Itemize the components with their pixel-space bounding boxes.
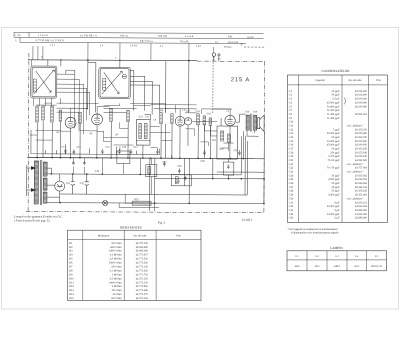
svg-text:voir „Bobines”: voir „Bobines” bbox=[347, 125, 364, 128]
capacitor C22 bbox=[163, 161, 166, 167]
pentode L1 AK2 bbox=[65, 117, 76, 128]
svg-text:Prix: Prix bbox=[376, 79, 381, 82]
svg-text:A 777 M. KM. A A 17 KA: A 777 M. KM. A A 17 KA N bbox=[35, 39, 64, 42]
svg-text:24.071.632: 24.071.632 bbox=[136, 297, 149, 300]
wire AVC bus bbox=[31, 130, 160, 154]
svg-text:R13: R13 bbox=[69, 289, 74, 292]
antenna terminal A bbox=[212, 53, 215, 61]
svg-text:1 MOhm: 1 MOhm bbox=[112, 273, 123, 276]
wire mid verticals bbox=[37, 117, 221, 158]
svg-text:No. de code: No. de code bbox=[349, 79, 363, 82]
svg-text:C29: C29 bbox=[233, 149, 238, 152]
svg-text:R13: R13 bbox=[134, 198, 139, 201]
svg-text:14000 Ohm: 14000 Ohm bbox=[109, 250, 123, 253]
svg-text:28.192.400: 28.192.400 bbox=[355, 90, 368, 93]
svg-text:24.771.575: 24.771.575 bbox=[136, 293, 149, 296]
svg-text:26.194.933: 26.194.933 bbox=[355, 178, 368, 181]
pentode L2 AF3 bbox=[92, 114, 103, 125]
svg-text:24.771.607: 24.771.607 bbox=[136, 254, 149, 257]
svg-text:28.052.680: 28.052.680 bbox=[136, 246, 149, 249]
svg-text:C16: C16 bbox=[289, 144, 294, 147]
wire tube leads bbox=[70, 114, 230, 158]
svg-text:45.000 µµF: 45.000 µµF bbox=[327, 144, 340, 147]
coil L5 bbox=[36, 106, 39, 122]
output transformer secondary S2 bbox=[254, 115, 257, 130]
svg-text:24.771.440: 24.771.440 bbox=[136, 289, 149, 292]
svg-text:8 µF: 8 µF bbox=[334, 201, 340, 204]
svg-text:11.490 µµF: 11.490 µµF bbox=[327, 117, 340, 120]
tuning shaft link bbox=[212, 56, 214, 114]
svg-text:24.771.350: 24.771.350 bbox=[136, 281, 149, 284]
svg-text:C29: C29 bbox=[289, 194, 294, 197]
svg-text:250 Ohm: 250 Ohm bbox=[111, 266, 122, 269]
tuning gang section 2 (C2) shield box bbox=[99, 67, 131, 98]
capacitor C15 bbox=[156, 149, 159, 155]
lampes header bbox=[296, 255, 379, 258]
capacitor C13 bbox=[73, 149, 76, 155]
svg-text:C10: C10 bbox=[289, 121, 294, 124]
rectifier tube L5 AZ1 bbox=[55, 181, 65, 191]
lampes values bbox=[294, 265, 382, 268]
svg-text:24.771.750: 24.771.750 bbox=[136, 273, 149, 276]
svg-text:28.288.000: 28.288.000 bbox=[355, 217, 368, 220]
svg-text:} Pour le point B voir pag. 52: } Pour le point B voir pag. 52. bbox=[14, 219, 51, 223]
capacitor C19 bbox=[203, 150, 206, 156]
svg-text:28.351.481: 28.351.481 bbox=[355, 194, 368, 197]
svg-text:2,5 MOhm: 2,5 MOhm bbox=[110, 258, 123, 261]
chassis boundary (dash-dot frame) bbox=[26, 53, 265, 213]
svg-text:R10: R10 bbox=[69, 277, 74, 280]
resistor R12 bbox=[209, 118, 212, 126]
transformer core bbox=[251, 114, 252, 132]
wire detector internals bbox=[220, 143, 233, 151]
svg-text:C13: C13 bbox=[289, 132, 294, 135]
svg-text:50 Ohm: 50 Ohm bbox=[113, 293, 123, 296]
coil L7 bbox=[110, 108, 113, 121]
svg-text:10000 Ohm: 10000 Ohm bbox=[109, 281, 123, 284]
wire switch drops bbox=[33, 43, 214, 61]
resistor R10 in detector box bbox=[220, 131, 223, 141]
svg-text:70 / 50 µµF: 70 / 50 µµF bbox=[327, 167, 340, 170]
T1 secondary heaters bbox=[43, 192, 47, 203]
svg-text:24.471.150: 24.471.150 bbox=[136, 277, 149, 280]
IF transformer box L10 bbox=[136, 120, 150, 146]
coil L3 inside box2 bbox=[103, 78, 106, 90]
svg-text:C17: C17 bbox=[133, 146, 138, 149]
wire bottom rail bbox=[47, 203, 264, 204]
capacitor C27 bbox=[238, 150, 241, 156]
component labels bbox=[56, 108, 258, 202]
svg-text:1 4 1: 1 4 1 bbox=[50, 44, 56, 47]
svg-text:28.192.400: 28.192.400 bbox=[355, 94, 368, 97]
loudspeaker bbox=[258, 115, 265, 131]
svg-text:50 µµF: 50 µµF bbox=[332, 174, 340, 177]
wire IF feed bbox=[166, 61, 189, 113]
capacitor C14 bbox=[101, 149, 104, 155]
transformer T1 core bbox=[40, 160, 41, 205]
svg-text:24.552.650: 24.552.650 bbox=[355, 213, 368, 216]
svg-text:C18: C18 bbox=[289, 151, 294, 154]
svg-text:C 87: C 87 bbox=[16, 34, 22, 37]
mains input plug bbox=[27, 165, 36, 196]
svg-text:200 Ohm: 200 Ohm bbox=[111, 242, 122, 245]
wire bus-to-rail drops bbox=[73, 158, 140, 175]
svg-text:2.000 µµF: 2.000 µµF bbox=[328, 194, 340, 197]
wire coupling 2 bbox=[48, 60, 96, 112]
svg-text:0,1 MOhm: 0,1 MOhm bbox=[110, 269, 123, 272]
svg-text:28.326.562: 28.326.562 bbox=[355, 182, 368, 185]
dial lamp bbox=[103, 200, 108, 205]
svg-text:C30: C30 bbox=[289, 197, 294, 200]
wire extra links bbox=[29, 122, 208, 151]
svg-text:LAMPES: LAMPES bbox=[330, 246, 343, 250]
resistor R8 bbox=[160, 113, 163, 124]
wire AVC links bbox=[35, 104, 196, 145]
svg-text:50.000 µµF: 50.000 µµF bbox=[327, 132, 340, 135]
svg-text:voir „Bobines”: voir „Bobines” bbox=[347, 197, 364, 200]
svg-text:45.000 µµF: 45.000 µµF bbox=[327, 101, 340, 104]
capacitor C4 bbox=[64, 149, 67, 155]
svg-text:29.356.245: 29.356.245 bbox=[355, 190, 368, 193]
duodiode L3 ABL1 triode bbox=[175, 116, 185, 126]
resistor R12b in detector box bbox=[227, 134, 230, 143]
wire grid bus upper bbox=[37, 103, 166, 113]
svg-text:ABL1: ABL1 bbox=[334, 265, 341, 268]
resistances rows bbox=[69, 242, 148, 300]
AF coupling box bbox=[171, 175, 191, 186]
svg-text:28.190.200: 28.190.200 bbox=[355, 140, 368, 143]
svg-text:28.195.610: 28.195.610 bbox=[355, 155, 368, 158]
svg-text:29.356.362: 29.356.362 bbox=[355, 174, 368, 177]
block capacitor unit C28/C29 bbox=[117, 151, 130, 164]
resistor R9 bbox=[171, 114, 174, 124]
svg-text:C18: C18 bbox=[196, 110, 201, 113]
resistor R4 bbox=[79, 112, 82, 123]
IF coil winding b bbox=[144, 124, 147, 139]
condensateurs table frame bbox=[288, 75, 388, 222]
svg-text:C16: C16 bbox=[122, 146, 127, 149]
svg-text:C31: C31 bbox=[66, 182, 71, 185]
wire R13 leads bbox=[119, 194, 159, 207]
svg-text:23.000 µµF: 23.000 µµF bbox=[327, 205, 340, 208]
diode section L3 bbox=[184, 118, 191, 125]
svg-text:C33: C33 bbox=[289, 209, 294, 212]
svg-text:C22: C22 bbox=[162, 161, 167, 164]
wire coupling 1 bbox=[57, 70, 90, 134]
filter choke box bbox=[146, 165, 157, 177]
svg-text:R11: R11 bbox=[69, 281, 74, 284]
svg-text:50 µµF: 50 µµF bbox=[332, 148, 340, 151]
wire rectifier output rail bbox=[47, 174, 241, 175]
svg-text:N.B. P.B.: N.B. P.B. bbox=[158, 35, 168, 38]
svg-text:28.199.050: 28.199.050 bbox=[355, 144, 368, 147]
capacitor C17 bbox=[130, 149, 133, 155]
wire speaker leads bbox=[236, 114, 259, 159]
svg-text:LNA H W: LNA H W bbox=[228, 41, 239, 44]
capacitor C26 bbox=[178, 168, 181, 174]
capacitor C23 bbox=[184, 176, 186, 180]
wire left rail bbox=[31, 60, 52, 106]
svg-text:C21: C21 bbox=[289, 163, 294, 166]
svg-text:C33: C33 bbox=[95, 170, 100, 173]
svg-text:28.199.060: 28.199.060 bbox=[355, 105, 368, 108]
capacitor C33b bbox=[83, 161, 86, 165]
svg-text:N b n.PL: N b n.PL bbox=[180, 40, 190, 43]
svg-text:C28: C28 bbox=[289, 190, 294, 193]
svg-text:C20: C20 bbox=[289, 159, 294, 162]
wire heater rail bbox=[60, 193, 247, 196]
T1 secondary HT bbox=[43, 162, 47, 176]
svg-text:d’alimentation avec transforma: d’alimentation avec transformateurs sépa… bbox=[291, 231, 339, 234]
svg-text:0,1 MOhm: 0,1 MOhm bbox=[110, 254, 123, 257]
svg-text:A b W: A b W bbox=[247, 36, 254, 39]
svg-text:voir „Bobines”: voir „Bobines” bbox=[347, 163, 364, 166]
svg-text:28.199.060: 28.199.060 bbox=[355, 101, 368, 104]
coil L11 bbox=[197, 114, 200, 125]
svg-text:125 Ohm: 125 Ohm bbox=[111, 289, 122, 292]
wire coupling 3 bbox=[120, 60, 160, 114]
svg-text:11.490 µµF: 11.490 µµF bbox=[327, 113, 340, 116]
capacitor C24 in box bbox=[227, 165, 229, 169]
output pentode L4 ABL1 bbox=[225, 115, 235, 125]
svg-text:R14: R14 bbox=[69, 293, 74, 296]
svg-text:C32: C32 bbox=[289, 205, 294, 208]
coil L6 bbox=[51, 106, 54, 122]
svg-text:* Est rapporté en employant un: * Est rapporté en employant un transform… bbox=[288, 228, 338, 231]
choke winding bbox=[148, 167, 151, 175]
svg-text:10.000 µµF: 10.000 µµF bbox=[327, 140, 340, 143]
svg-text:29.757.604: 29.757.604 bbox=[355, 167, 368, 170]
junction dots top bus bbox=[60, 59, 190, 61]
svg-text:28.199.060: 28.199.060 bbox=[355, 132, 368, 135]
svg-text:AF3: AF3 bbox=[315, 265, 320, 268]
svg-text:P.PL: P.PL bbox=[228, 35, 233, 38]
resistor R9b in AF box bbox=[175, 177, 178, 184]
resistor R6 bbox=[127, 111, 130, 122]
svg-text:n.a. m.b.: n.a. m.b. bbox=[185, 35, 194, 38]
svg-text:50 µµF: 50 µµF bbox=[332, 136, 340, 139]
condensateurs rows bbox=[289, 90, 368, 220]
wire right risers bbox=[150, 131, 265, 212]
svg-text:50.000 µµF: 50.000 µµF bbox=[327, 105, 340, 108]
svg-text:50 µµF: 50 µµF bbox=[332, 94, 340, 97]
coil L2 inside box1 bbox=[33, 79, 36, 93]
svg-text:24.771.850: 24.771.850 bbox=[136, 285, 149, 288]
electrolytic capacitor C31 bbox=[71, 174, 75, 194]
lampes table frame bbox=[287, 251, 387, 271]
svg-text:C13: C13 bbox=[76, 146, 81, 149]
electrolytic capacitor C32 bbox=[85, 174, 89, 194]
svg-text:28.356.131: 28.356.131 bbox=[355, 201, 368, 204]
svg-text:2.950 µµF: 2.950 µµF bbox=[328, 178, 340, 181]
svg-text:29.356.150: 29.356.150 bbox=[355, 128, 368, 131]
svg-text:50 µµF: 50 µµF bbox=[332, 90, 340, 93]
svg-text:50 µµF: 50 µµF bbox=[332, 182, 340, 185]
svg-text:1 1 3 4 4 1: 1 1 3 4 4 1 bbox=[38, 34, 49, 37]
svg-text:Résistance: Résistance bbox=[98, 235, 110, 238]
svg-text:0,5 µF: 0,5 µF bbox=[332, 98, 340, 101]
svg-text:D 2051: D 2051 bbox=[241, 218, 252, 222]
svg-text:24.771.520: 24.771.520 bbox=[136, 258, 149, 261]
svg-text:Prix: Prix bbox=[176, 235, 181, 238]
svg-text:R12: R12 bbox=[69, 285, 74, 288]
tuning gang section 1 (C1) shield box bbox=[31, 66, 57, 98]
svg-text:C23: C23 bbox=[176, 180, 181, 183]
svg-text:C23: C23 bbox=[289, 171, 294, 174]
svg-text:C42: C42 bbox=[289, 213, 294, 216]
output transformer primary S1 bbox=[246, 115, 249, 130]
svg-text:24.771.650: 24.771.650 bbox=[136, 269, 149, 272]
svg-text:C26: C26 bbox=[177, 165, 182, 168]
resistor R13 mains dropper bbox=[132, 201, 151, 205]
svg-text:250 µµF: 250 µµF bbox=[330, 151, 340, 154]
earth terminal bbox=[218, 54, 220, 61]
svg-text:C22: C22 bbox=[289, 167, 294, 170]
wire HT rail bbox=[154, 177, 264, 180]
wire antenna bus bbox=[28, 59, 197, 62]
svg-text:C27: C27 bbox=[289, 186, 294, 189]
header strip text bbox=[15, 34, 254, 49]
svg-text:C14: C14 bbox=[289, 136, 294, 139]
wire grid links bbox=[57, 108, 233, 133]
svg-text:CONDENSATEURS: CONDENSATEURS bbox=[321, 69, 349, 73]
svg-text:C17: C17 bbox=[289, 148, 294, 151]
trimmer C5 in box2 bbox=[122, 74, 126, 78]
svg-text:24.770.190: 24.770.190 bbox=[136, 242, 149, 245]
svg-text:50000 Ohm: 50000 Ohm bbox=[109, 262, 123, 265]
svg-text:28.199.290: 28.199.290 bbox=[355, 98, 368, 101]
svg-text:24.771.130: 24.771.130 bbox=[136, 266, 149, 269]
dial/switch header table bbox=[14, 32, 266, 47]
svg-text:C14: C14 bbox=[105, 146, 110, 149]
svg-text:29.155.630: 29.155.630 bbox=[355, 151, 368, 154]
svg-text:1.070 µµF: 1.070 µµF bbox=[328, 155, 340, 158]
svg-text:C27: C27 bbox=[219, 148, 224, 151]
svg-text:28.342.335: 28.342.335 bbox=[355, 186, 368, 189]
svg-text:24.771.620: 24.771.620 bbox=[136, 262, 149, 265]
wire choke leads bbox=[150, 158, 152, 194]
svg-text:P.B. N N n.a.: P.B. N N n.a. bbox=[140, 40, 154, 43]
variable capacitor C2 arrows bbox=[102, 71, 123, 94]
svg-text:RESISTANCES: RESISTANCES bbox=[120, 225, 142, 229]
wire chassis bus bbox=[27, 157, 264, 158]
svg-text:29.356.245: 29.356.245 bbox=[355, 148, 368, 151]
svg-text:S4 Na L: S4 Na L bbox=[224, 46, 233, 49]
brace C7-C9 bbox=[344, 98, 347, 105]
svg-text:11.000 µµF: 11.000 µµF bbox=[327, 109, 340, 112]
svg-text:Fig. 2: Fig. 2 bbox=[158, 220, 166, 224]
svg-text:C32: C32 bbox=[80, 182, 85, 185]
svg-text:C28: C28 bbox=[200, 160, 205, 163]
svg-text:24.552.652: 24.552.652 bbox=[355, 205, 368, 208]
svg-text:voir „Bobines”: voir „Bobines” bbox=[347, 171, 364, 174]
svg-text:AZ1: AZ1 bbox=[354, 265, 360, 268]
IF coil winding a bbox=[139, 124, 142, 139]
svg-text:28.292.301: 28.292.301 bbox=[355, 113, 368, 116]
svg-text:50 µµF: 50 µµF bbox=[332, 190, 340, 193]
svg-text:8063/1-05: 8063/1-05 bbox=[371, 265, 383, 268]
resistor R11 bbox=[203, 116, 206, 125]
svg-text:C43: C43 bbox=[289, 217, 294, 220]
svg-text:1 A3: 1 A3 bbox=[196, 45, 201, 48]
svg-text:C12: C12 bbox=[289, 128, 294, 131]
svg-text:70–50 µµF: 70–50 µµF bbox=[328, 159, 340, 162]
svg-text:50 µµF: 50 µµF bbox=[332, 186, 340, 189]
coupling box C23 bbox=[223, 162, 234, 175]
mains transformer T1 primary bbox=[34, 161, 38, 204]
svg-text:R15: R15 bbox=[69, 297, 74, 300]
svg-text:0,5 MOhm: 0,5 MOhm bbox=[110, 277, 123, 280]
svg-text:33.000 µµF: 33.000 µµF bbox=[327, 213, 340, 216]
junction dots rails bbox=[50, 173, 265, 204]
svg-text:L A N L: L A N L bbox=[130, 44, 138, 47]
wire anode links bbox=[71, 106, 231, 136]
svg-text:C25: C25 bbox=[289, 178, 294, 181]
svg-text:Capacité: Capacité bbox=[315, 79, 325, 82]
svg-text:5 µµF: 5 µµF bbox=[333, 128, 340, 131]
svg-text:C13: C13 bbox=[139, 115, 144, 118]
svg-text:C31: C31 bbox=[289, 201, 294, 204]
svg-text:C24: C24 bbox=[289, 174, 294, 177]
svg-text:600 Ohm: 600 Ohm bbox=[111, 297, 122, 300]
svg-text:C11: C11 bbox=[289, 125, 294, 128]
svg-text:215 A: 215 A bbox=[231, 76, 250, 83]
detector box bbox=[217, 126, 238, 159]
capacitor C16 bbox=[118, 149, 121, 155]
svg-text:29.356.370: 29.356.370 bbox=[355, 136, 368, 139]
svg-text:N.B. wa.: N.B. wa. bbox=[120, 34, 129, 37]
svg-text:C26: C26 bbox=[289, 182, 294, 185]
svg-text:C19: C19 bbox=[289, 155, 294, 158]
variable capacitor C1 arrows bbox=[34, 70, 55, 94]
resistor R1 bbox=[42, 106, 45, 120]
resistor R2 bbox=[59, 110, 62, 121]
svg-text:ws. N.B. P.B. 1 4: ws. N.B. P.B. 1 4 bbox=[80, 34, 97, 37]
wire rectifier leads bbox=[47, 168, 60, 203]
svg-text:2 µF: 2 µF bbox=[334, 217, 340, 220]
svg-text:No. de code: No. de code bbox=[134, 235, 148, 238]
svg-text:28.085.080: 28.085.080 bbox=[136, 250, 149, 253]
capacitor C29 lead bbox=[120, 146, 124, 174]
svg-text:2 µF: 2 µF bbox=[334, 209, 340, 212]
junction dots chassis bus bbox=[36, 157, 244, 160]
svg-text:C15: C15 bbox=[289, 140, 294, 143]
svg-text:C20: C20 bbox=[186, 110, 191, 113]
svg-text:24.552.500: 24.552.500 bbox=[355, 159, 368, 162]
svg-text:2 MOhm: 2 MOhm bbox=[112, 285, 123, 288]
resistances table frame bbox=[68, 230, 202, 300]
svg-text:C19: C19 bbox=[207, 112, 212, 115]
capacitor C30 bbox=[72, 161, 75, 165]
T1 secondary rect fil bbox=[43, 178, 47, 190]
svg-text:2000 Ohm: 2000 Ohm bbox=[110, 246, 122, 249]
svg-text:AK2: AK2 bbox=[294, 265, 300, 268]
svg-text:28.288.000: 28.288.000 bbox=[355, 209, 368, 212]
